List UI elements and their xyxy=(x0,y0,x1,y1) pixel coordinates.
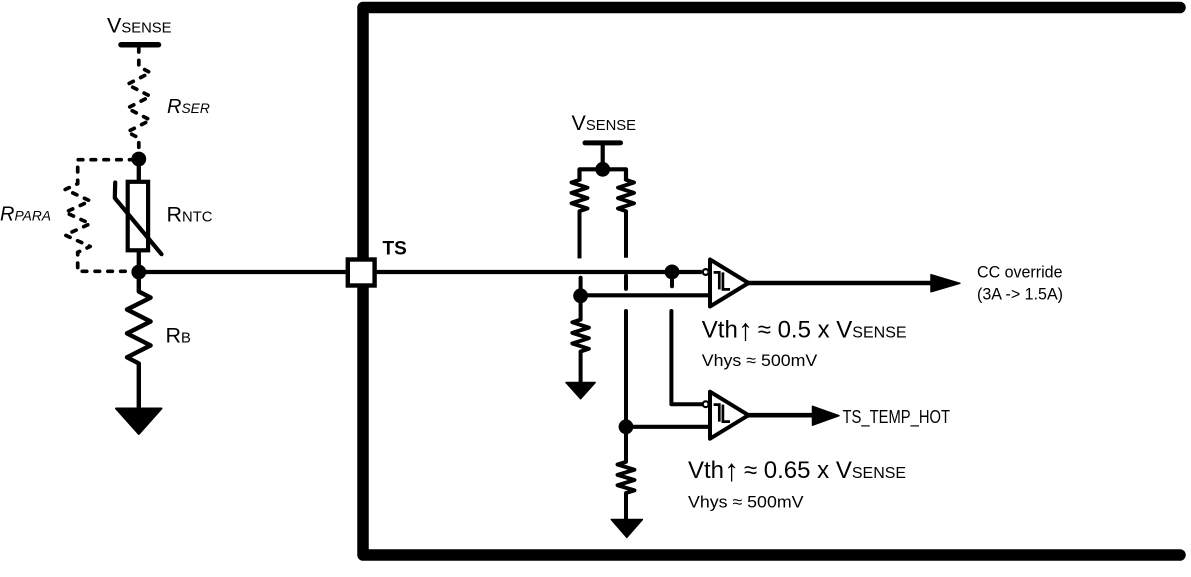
comparator U2 inverting bubble xyxy=(703,401,709,407)
svg-text:CC override: CC override xyxy=(977,263,1063,282)
wire left divider drop xyxy=(578,211,582,258)
comparator U1 hysteresis glyph xyxy=(714,272,720,289)
resistor RPARA (dashed, parallel path) xyxy=(65,160,134,272)
resistor (0.5x divider, upper) xyxy=(572,180,588,211)
wire comparator 2 output xyxy=(749,413,815,418)
thermistor RNTC body xyxy=(128,182,148,251)
wire RNTC to node B xyxy=(137,250,141,272)
wire node A to RNTC xyxy=(137,159,141,181)
wire node B to TS pin xyxy=(139,270,348,274)
resistor (0.65x divider, lower) xyxy=(618,462,635,493)
supply bar VSENSE external xyxy=(121,42,159,48)
node E (TS tap junction) xyxy=(665,265,680,280)
wire TS pin to comparator 1 xyxy=(374,270,702,274)
wire right divider to node F xyxy=(624,311,628,427)
supply bar VSENSE internal xyxy=(585,140,621,145)
wire right divider drop xyxy=(624,211,628,258)
resistor RSER (dashed zigzag) xyxy=(127,48,150,153)
svg-text:TS: TS xyxy=(383,239,407,260)
node A (RSER-RNTC junction) xyxy=(131,152,146,167)
wire stub right divider (crossover) xyxy=(624,276,628,289)
wire stub node E down xyxy=(670,272,674,286)
wire node F down xyxy=(624,427,628,462)
wire node C branch tee xyxy=(580,169,627,181)
node F (0.65x reference) xyxy=(619,419,634,434)
svg-text:Vhys ≈ 500mV: Vhys ≈ 500mV xyxy=(688,493,804,512)
comparator U1 body xyxy=(710,260,749,307)
svg-text:Vhys ≈ 500mV: Vhys ≈ 500mV xyxy=(702,351,818,370)
arrow CC override output xyxy=(931,275,960,292)
wire stub left divider to node D xyxy=(579,278,583,292)
wire comparator 1 output xyxy=(749,281,933,286)
node C (divider top junction) xyxy=(595,162,610,177)
comparator U2 hysteresis glyph xyxy=(714,405,720,422)
comparator U1 inverting bubble xyxy=(703,269,709,275)
wire to ground (0.65x divider) xyxy=(624,493,628,520)
wire node D to comparator 1 lower input xyxy=(581,293,713,297)
arrow TS_TEMP_HOT output xyxy=(813,406,840,425)
wire node D down xyxy=(579,296,583,320)
resistor (0.5x divider, lower) xyxy=(572,320,589,352)
ground (0.65x divider) xyxy=(611,520,642,538)
resistor (0.65x divider, upper) xyxy=(618,180,634,211)
svg-text:TS_TEMP_HOT: TS_TEMP_HOT xyxy=(843,407,951,428)
svg-text:(3A -> 1.5A): (3A -> 1.5A) xyxy=(977,284,1063,303)
pin TS (square terminal) xyxy=(348,260,375,286)
comparator U2 body xyxy=(710,392,749,439)
wire node F to comparator 2 lower input xyxy=(626,425,713,429)
wire node E to comparator 2 input xyxy=(671,311,701,404)
ground (below RB) xyxy=(116,409,162,434)
node D (0.5x reference) xyxy=(573,288,588,303)
IC boundary box xyxy=(363,8,1180,556)
node B (RNTC-RB-TS junction) xyxy=(131,265,146,280)
wire supply to node C xyxy=(601,143,605,169)
resistor RB xyxy=(127,272,151,408)
thermistor RNTC diagonal stroke xyxy=(115,183,162,255)
wire to ground (0.5x divider) xyxy=(579,352,583,383)
ground (0.5x divider) xyxy=(566,383,595,399)
